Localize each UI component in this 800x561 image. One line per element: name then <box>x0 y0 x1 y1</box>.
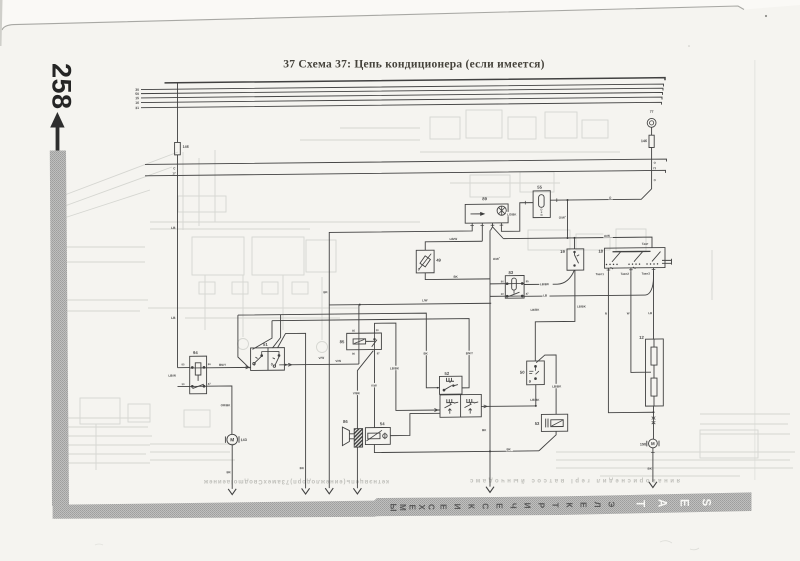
wire BK rail from 54 bottom to 53 <box>374 443 539 453</box>
scan specks <box>765 15 767 17</box>
svg-text:Е: Е <box>579 502 588 508</box>
ground arrow (51 branch) <box>302 488 310 494</box>
wire label LB/W at relay 94 <box>168 374 176 378</box>
ghost mirrored captions <box>203 478 389 484</box>
svg-text:Х: Х <box>417 504 426 510</box>
pressure switch 50 <box>520 361 544 385</box>
svg-text:Е: Е <box>495 503 504 509</box>
rail terminal labels C / 17 <box>172 166 176 175</box>
wire O from 55 right toward fuse drop <box>550 189 651 200</box>
left grey tab bar <box>50 151 69 507</box>
node M1 left leg diagonal into 51 <box>238 315 250 368</box>
wire label LB (lower) <box>171 316 176 320</box>
svg-text:М: М <box>398 504 407 511</box>
wire O/W vertical feed of 83 and BK drop to ground <box>489 230 491 486</box>
wire label V/W near BK crossing <box>319 356 325 360</box>
compressor clutch motor 77 <box>647 110 656 128</box>
wire from 50 bottom to 52 output junction <box>535 385 537 406</box>
mid rail line 2 <box>145 170 666 178</box>
wire LB/BK from 83 pin85 up to thermal switch 19 <box>524 270 574 284</box>
horn 86 <box>342 419 349 446</box>
bottom grey tab bar <box>53 492 752 518</box>
wire W from 18 to resistor pack tap <box>631 271 651 372</box>
fan control unit 89 <box>465 196 508 223</box>
fuse 146 (right) <box>649 135 654 147</box>
scan left-edge sliver <box>0 0 3 46</box>
wire LB/BK from 52 output to 50 junction <box>481 405 536 408</box>
thermo fuse 54 <box>365 421 390 444</box>
wire from 89 pin3 split to O/W rail and BK drop <box>491 227 504 239</box>
ghost bottom-left lines <box>57 418 152 463</box>
wire BK below motor 150 <box>652 448 654 482</box>
wire from 77 down to fuse 146 <box>651 127 653 135</box>
svg-text:Е: Е <box>439 504 448 510</box>
thermal switch 19 <box>560 249 584 271</box>
wire OR/BK from 94 pin87 down to motor 143 <box>207 386 232 434</box>
wire BK from 89 pin1 left and down to ground <box>329 227 472 488</box>
wire LB/BK from thermal switch 19 down-left into 50 <box>535 270 575 361</box>
svg-text:Ы: Ы <box>389 503 398 511</box>
wire LB/BK: 85 pin30 up-over-down to 52 low-speed contact <box>375 323 441 411</box>
ghost verticals top-left <box>183 150 215 230</box>
ground arrow (86) <box>353 488 361 494</box>
svg-text:И: И <box>523 503 532 509</box>
stubs into relay 83 <box>490 284 505 297</box>
wire bypass from 50 top to resistor pack 53 <box>536 355 556 415</box>
svg-text:A: A <box>656 499 668 507</box>
relay 83 <box>501 270 529 298</box>
wire LB/W from node to sensor 49 <box>425 241 482 250</box>
line M2 (BN/Y feed to blower switch 52) <box>272 319 469 390</box>
ground arrow (89 BK) <box>325 488 333 494</box>
page tab arrow <box>50 112 64 151</box>
bus line B <box>141 84 664 92</box>
wire BK below motor 143 <box>231 445 233 489</box>
ghost mid horizontals <box>150 222 420 229</box>
wire from 52 low contact down to 54 right side <box>390 413 440 435</box>
bus labels <box>135 88 139 110</box>
ghost rows behind 89/55 <box>470 175 510 197</box>
resistor 53 <box>535 414 568 431</box>
svg-text:258: 258 <box>47 63 77 110</box>
wire below horn 86 to ground <box>356 447 358 488</box>
svg-text:E: E <box>678 499 690 507</box>
wire from node M1 down to 51 top-mid <box>273 315 281 348</box>
blower resistor pack 12 <box>639 335 663 407</box>
svg-text:Р: Р <box>537 503 546 509</box>
wire from 89 pin2 down to LB/W node <box>481 227 483 241</box>
89 pin stubs and connector ticks <box>472 223 501 227</box>
ground arrow (150) <box>649 482 657 488</box>
wire O/W branch down from 55 wire to O/W rail <box>567 200 569 238</box>
svg-text:Л: Л <box>593 502 602 508</box>
mid rail line 1 <box>145 159 667 167</box>
ghost bottom-right lines <box>700 414 790 434</box>
svg-text:С: С <box>427 504 436 510</box>
ghost top-centre component row <box>430 117 460 139</box>
switch 51 (A/C switches) <box>251 342 285 371</box>
ghost right-mid block <box>711 250 713 300</box>
wire LB from bus 30 down to relay 94 <box>178 83 190 387</box>
wire BN/Y from 94 to switch 51 <box>207 366 251 368</box>
wire R from 18 down to resistor bottom junction <box>608 271 653 413</box>
ground arrow (143) <box>228 489 236 495</box>
temperature sensor 49 <box>416 250 441 273</box>
wire below 12 with service crosses to motor 150 <box>653 406 655 439</box>
svg-text:Т: Т <box>551 503 560 508</box>
fuse 146 (left) <box>175 142 181 154</box>
bus line C <box>141 88 663 96</box>
ghost cluster A boxes <box>192 237 244 275</box>
svg-text:T: T <box>634 500 646 507</box>
wire L/W rail <box>329 303 491 305</box>
wire O/W rail to thermo switch 18 <box>503 237 652 249</box>
svg-text:С: С <box>481 503 490 509</box>
wire label LB (upper) <box>171 226 176 230</box>
wire V/W from 85 pin87 down to resistor 54 <box>374 349 376 427</box>
bottom bar rotated caption: ЭЛЕКТРИЧЕСКИЕ СХЕМЫ (reversed) <box>389 501 616 511</box>
wire LG/BK from 89 pin4 to 55 <box>501 203 533 232</box>
ground arrow (83/BK rail) <box>486 487 494 493</box>
wire LB from 18 into resistor pack 12 <box>653 271 655 339</box>
18 side connector stub <box>662 259 672 265</box>
blower switch 52 upper section <box>440 371 463 395</box>
bottom bar SEAT logo letters (reversed, white) <box>634 499 712 508</box>
horn coupler hatched block <box>349 429 362 448</box>
scan page-edge line (top) <box>2 6 744 30</box>
svg-text:Ч: Ч <box>509 503 518 509</box>
wire LB from 83 pin87 to thermo switch 18 <box>524 271 653 296</box>
ghost left margin lines <box>58 247 148 311</box>
magnetic clutch 55 <box>533 185 550 218</box>
18 bottom pin labels <box>596 272 651 277</box>
blower switch 52 lower section <box>440 394 481 417</box>
wire BK from 53 down to black rail <box>539 431 556 450</box>
svg-text:S: S <box>700 499 712 507</box>
blower motor 150 <box>640 439 659 448</box>
svg-text:37 Схема 37: Цепь кондиционера: 37 Схема 37: Цепь кондиционера (если име… <box>283 59 545 71</box>
ghost diagonals top-left <box>62 152 178 196</box>
bus line E <box>141 97 662 105</box>
svg-text:Э: Э <box>607 501 616 507</box>
wire V/W from 51 to relay 85 pin 86 <box>284 363 359 366</box>
relay 85 <box>340 328 382 356</box>
wire 85 coil pin up to L/W rail <box>358 305 360 334</box>
page curvature shade right <box>754 60 756 480</box>
wire from node M2 down to 51 top-left <box>253 321 273 350</box>
svg-text:И: И <box>453 504 462 510</box>
line M1 (BK feed to blower switch 52) <box>238 313 440 390</box>
wire V/BK diagonal from 85 pin87 node down to horn 86 <box>357 351 373 429</box>
wire from O/W rail down to thermal switch 19 <box>574 238 576 249</box>
wire O from fuse down through rails to 55 wire <box>651 147 653 189</box>
relay 94 <box>182 350 212 394</box>
ghost behind 18 <box>528 230 570 250</box>
motor 143 <box>225 434 246 445</box>
bus line D <box>141 92 663 100</box>
bus line 30 (heavy top supply rail) <box>165 78 666 86</box>
wire BK from 49 to relay 83 feed <box>425 272 490 279</box>
bus line F <box>141 102 662 110</box>
wire 85 pin86 down to V/W <box>358 350 360 364</box>
wire from 51 top-right up to ground drop <box>278 333 306 488</box>
thermo switch block 18 <box>598 248 665 269</box>
svg-text:Е: Е <box>408 504 417 510</box>
